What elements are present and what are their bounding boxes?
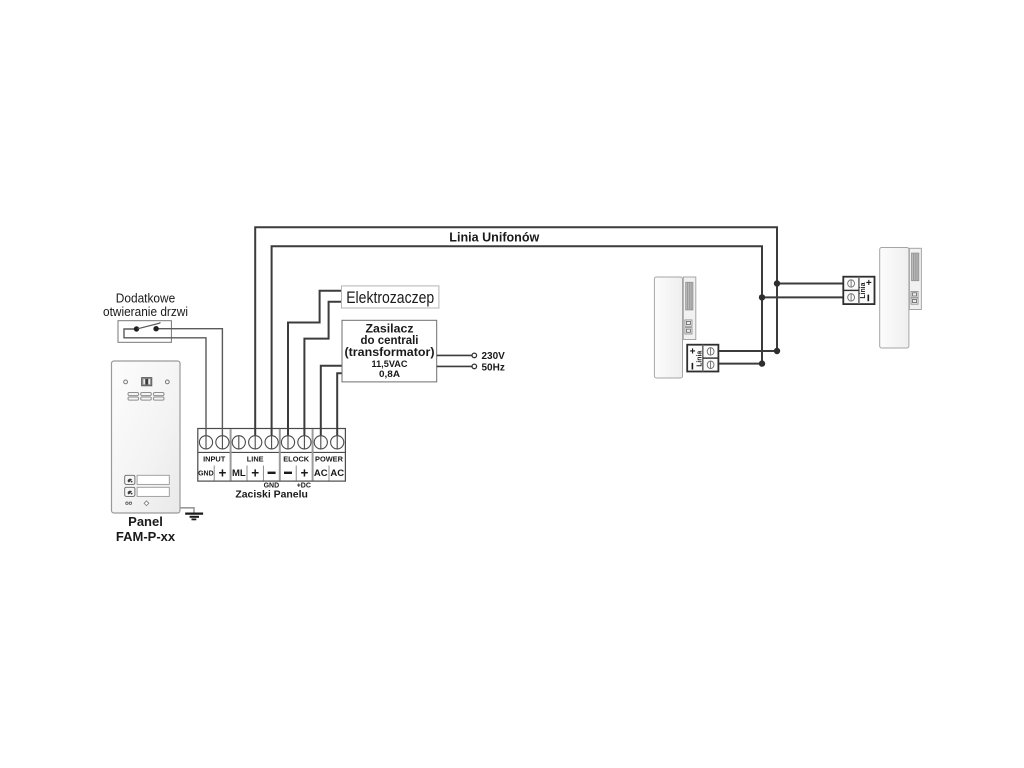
svg-text:Panel: Panel: [128, 514, 163, 529]
switch box (dodatkowe otwieranie drzwi): [118, 321, 171, 343]
Zasilacz do centrali (transformator) box: [342, 320, 437, 382]
panel camera window: [142, 378, 152, 386]
uniphone 1 terminal block: [687, 345, 718, 372]
wire: zasilacz to POWER AC2 terminal: [337, 373, 342, 436]
wire: 230V mains stub: [437, 354, 472, 356]
uniphone 2 base strip: [909, 248, 921, 309]
svg-text:0,8A: 0,8A: [379, 369, 400, 380]
wire: zasilacz to POWER AC1 terminal: [321, 366, 343, 437]
svg-text:FAM-P-xx: FAM-P-xx: [116, 529, 176, 544]
terminal screws of Zaciski Panelu (9x): [199, 436, 343, 449]
svg-text:AC: AC: [314, 468, 328, 479]
wire: elektrozaczep to ELOCK+ terminal: [304, 302, 341, 437]
svg-text:ELOCK: ELOCK: [283, 454, 310, 463]
panel FAM-P-xx body: [112, 361, 181, 513]
junction dot C (+ line end, uniphone 1): [774, 348, 780, 354]
terminal block Zaciski Panelu: outer body: [198, 429, 346, 482]
panel name plate 2: [137, 487, 169, 496]
svg-text:Zasilacz: Zasilacz: [366, 323, 414, 335]
uniphone 1 base strip: [683, 277, 696, 340]
panel bottom mark diamond: [144, 501, 149, 506]
uniphone 1 body: [654, 277, 682, 378]
terminal block group separator ELOCK|POWER: [312, 429, 314, 481]
Elektrozaczep box: [342, 286, 439, 308]
terminal circle 230V: [472, 353, 477, 358]
svg-text:AC: AC: [330, 468, 344, 479]
uniphone 1 switch icon 2: [685, 328, 692, 334]
uniphone 1 speaker grille: [686, 282, 693, 310]
wire: 50Hz mains stub: [437, 365, 472, 367]
svg-text:do centrali: do centrali: [361, 335, 419, 347]
ground symbol: [185, 514, 203, 520]
panel bottom mark oo: [126, 502, 132, 504]
wire: Linia Unifonow - (LINE- up, across top, down to uniphone 1 -): [272, 246, 762, 436]
switch contact right: [153, 326, 158, 331]
svg-text:+: +: [218, 465, 226, 480]
svg-text:+: +: [251, 465, 259, 480]
label Dodatkowe otwieranie drzwi: [103, 291, 188, 319]
svg-text:50Hz: 50Hz: [482, 362, 505, 373]
uniphone 2 body: [880, 248, 909, 349]
wire: panel to ground: [180, 508, 194, 513]
panel speaker grille (6 slots): [128, 393, 164, 401]
uniphone 2 switch icon 2: [911, 298, 918, 304]
svg-text:Elektrozaczep: Elektrozaczep: [346, 289, 434, 307]
panel call button 1 (bell): [125, 475, 135, 484]
svg-text:Linia Unifonów: Linia Unifonów: [449, 231, 539, 245]
svg-text:Linia: Linia: [860, 283, 867, 299]
svg-text:GND: GND: [198, 471, 214, 478]
panel name plate 1: [137, 475, 169, 484]
svg-text:LINE: LINE: [247, 454, 264, 463]
wire: uniphone 1 - to line: [718, 363, 762, 365]
panel screw left: [124, 380, 128, 384]
junction dot B (- line, branch uniphone 2): [759, 294, 765, 300]
svg-text:(transformator): (transformator): [345, 347, 435, 359]
wire: switch to INPUT + terminal: [156, 329, 222, 437]
uniphone 1 switch icon 1: [685, 320, 692, 326]
uniphone 2 terminal block: [843, 277, 874, 304]
switch blade: [138, 323, 161, 329]
uniphone 2 switch icon 1: [911, 291, 918, 297]
switch contact left: [134, 326, 139, 331]
svg-text:230V: 230V: [482, 351, 506, 362]
terminal block group labels: [203, 454, 344, 463]
terminal block group separator INPUT|LINE: [230, 429, 232, 481]
wire: branch to uniphone 2 +: [777, 283, 843, 285]
svg-text:otwieranie drzwi: otwieranie drzwi: [103, 305, 188, 319]
terminal circle 50Hz: [472, 364, 477, 369]
svg-text:Dodatkowe: Dodatkowe: [116, 291, 176, 305]
svg-text:Zaciski Panelu: Zaciski Panelu: [235, 488, 308, 500]
panel call button 2 (bell): [125, 487, 135, 496]
terminal cell separators (bottom label row): [214, 466, 329, 481]
junction dot A (+ line, branch uniphone 2): [774, 280, 780, 286]
wire: switch to INPUT GND terminal: [124, 329, 206, 437]
svg-text:POWER: POWER: [315, 454, 344, 463]
terminal block group separator LINE|ELOCK: [279, 429, 281, 481]
wire: branch to uniphone 2 -: [762, 296, 843, 298]
uniphone 2 speaker grille: [912, 253, 919, 281]
svg-text:ML: ML: [232, 468, 246, 479]
junction dot D (- line end, uniphone 1): [759, 360, 765, 366]
svg-text:Linia: Linia: [697, 351, 704, 367]
wire: elektrozaczep to ELOCK- terminal: [288, 291, 342, 437]
svg-text:INPUT: INPUT: [203, 454, 226, 463]
svg-text:+: +: [690, 347, 696, 358]
svg-text:+: +: [300, 465, 308, 480]
panel screw right: [165, 380, 169, 384]
wire: Linia Unifonow + (LINE+ up, across top, down to uniphone 1 +): [255, 227, 777, 436]
wire: uniphone 1 + to line: [718, 350, 777, 352]
terminal labels GND + ML + - - + AC AC: [198, 465, 344, 480]
